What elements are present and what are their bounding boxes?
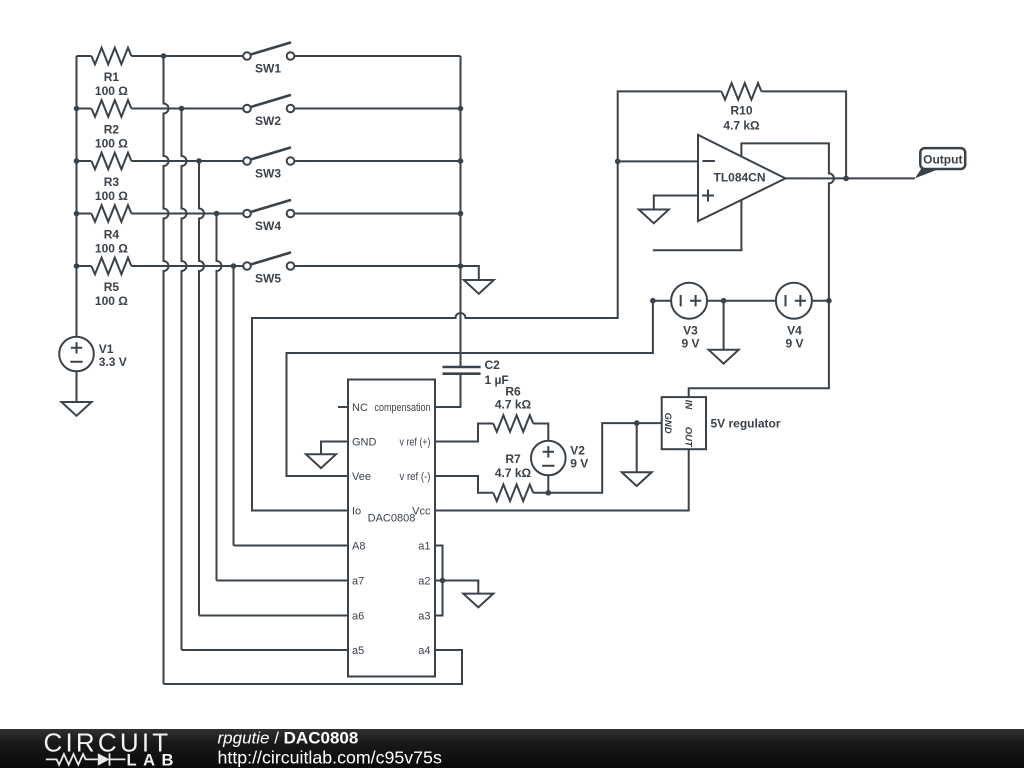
wire op-amp VS- to V3 node (653, 200, 742, 250)
voltage source V1 (59, 337, 127, 372)
svg-text:SW1: SW1 (255, 61, 281, 75)
node VS- V3 (650, 298, 656, 304)
ground below V1 (62, 390, 92, 416)
svg-text:R7: R7 (505, 452, 521, 466)
ground below V3 V4 (709, 338, 739, 364)
footer bar (0, 729, 1024, 768)
wire switch outputs to bus (294, 56, 460, 266)
svg-text:GND: GND (662, 413, 673, 434)
voltage source V3 (671, 283, 707, 351)
wire V3 V4 row (653, 300, 829, 302)
ground below regulator (622, 460, 652, 486)
svg-text:C2: C2 (485, 358, 501, 372)
wire op-amp VS+ to rail (689, 143, 834, 397)
node op-amp minus (615, 159, 621, 165)
node row1 takeoff (161, 53, 167, 59)
svg-text:DAC0808: DAC0808 (368, 513, 416, 525)
wire vertical row3 to a6 (199, 161, 204, 616)
node rail row2 (74, 106, 80, 112)
svg-text:5V regulator: 5V regulator (711, 417, 781, 431)
node V4 plus (826, 298, 832, 304)
wire vertical row5 to A8 (233, 266, 235, 546)
svg-text:v ref (+): v ref (+) (400, 436, 431, 448)
wire Vee pin loop to V3 minus (287, 301, 653, 476)
ground at a2 (463, 582, 493, 608)
svg-text:a2: a2 (418, 575, 430, 587)
resistor R3 (91, 153, 131, 203)
wire Io pin to op-amp minus node (252, 161, 698, 510)
svg-text:100 Ω: 100 Ω (95, 294, 128, 308)
wire V1 to ground (76, 371, 78, 390)
svg-text:a5: a5 (352, 645, 364, 657)
node regulator gnd (634, 420, 640, 426)
wire vertical row2 to a5 (182, 109, 187, 651)
ground below switch bus (464, 268, 494, 294)
svg-text:a7: a7 (352, 575, 364, 587)
wire op-amp plus input to ground (654, 196, 698, 198)
switch SW4 (243, 200, 294, 233)
svg-text:SW5: SW5 (255, 271, 281, 285)
wire v ref (-) to R7 (435, 476, 493, 493)
svg-text:LAB: LAB (127, 752, 180, 768)
svg-text:a4: a4 (418, 645, 430, 657)
svg-text:Io: Io (352, 505, 361, 517)
svg-text:R1: R1 (104, 70, 120, 84)
IC U1 DAC0808 box (348, 380, 435, 677)
svg-text:a3: a3 (418, 610, 430, 622)
svg-text:compensation: compensation (375, 402, 431, 414)
node bus row2 (458, 106, 464, 112)
wire output (785, 177, 915, 179)
voltage source V2 (531, 441, 588, 476)
node R7 V2 (546, 490, 552, 496)
node row5 takeoff (231, 263, 237, 269)
node rail row5 (74, 263, 80, 269)
wire A8 pin (234, 545, 349, 547)
wire vertical row4 to a7 (217, 214, 222, 581)
svg-text:GND: GND (352, 436, 377, 448)
node rail row4 (74, 211, 80, 217)
svg-text:V3: V3 (683, 323, 698, 337)
capacitor C2 (443, 358, 509, 387)
node rail row3 (74, 158, 80, 164)
svg-text:100 Ω: 100 Ω (95, 241, 128, 255)
wire a2 to ground (443, 581, 479, 583)
switch SW5 (243, 252, 294, 285)
svg-text:3.3 V: 3.3 V (99, 355, 127, 369)
svg-text:TL084CN: TL084CN (713, 171, 765, 185)
svg-text:100 Ω: 100 Ω (95, 84, 128, 98)
wire C2 to compensation pin (435, 374, 461, 407)
node bus row4 (458, 211, 464, 217)
node row2 takeoff (179, 106, 185, 112)
svg-text:R3: R3 (104, 175, 120, 189)
switch SW2 (243, 95, 294, 128)
svg-text:A8: A8 (352, 540, 365, 552)
svg-text:9 V: 9 V (570, 456, 588, 470)
resistor R5 (91, 258, 131, 308)
svg-text:9 V: 9 V (681, 336, 699, 350)
resistor R7 (493, 452, 533, 501)
wire bus to C2 (460, 56, 462, 367)
ground at DAC GND pin (306, 442, 336, 468)
svg-text:100 Ω: 100 Ω (95, 189, 128, 203)
resistor R2 (91, 100, 131, 150)
CircuitLab logo (44, 728, 180, 768)
wire regulator GND to ground (636, 423, 638, 460)
switch SW1 (243, 42, 294, 75)
resistor R6 (493, 385, 533, 432)
node V3 V4 mid (721, 298, 727, 304)
regulator U2 box (662, 397, 781, 449)
flag Output (915, 148, 965, 178)
svg-text:v ref (-): v ref (-) (400, 471, 431, 483)
op-amp U3 TL084CN (698, 135, 785, 221)
wire row 2 (77, 108, 244, 110)
wire regulator OUT to Vcc pin (435, 449, 689, 510)
wire vertical row1 to bottom (164, 56, 169, 684)
svg-text:Output: Output (923, 153, 962, 167)
node bus row5 (458, 263, 464, 269)
svg-text:V1: V1 (99, 342, 114, 356)
svg-text:100 Ω: 100 Ω (95, 136, 128, 150)
wire R6 to V2 plus (533, 424, 548, 441)
node row4 takeoff (214, 211, 220, 217)
svg-text:V4: V4 (787, 323, 802, 337)
wire a1 a2 a3 tie (435, 546, 443, 616)
svg-text:R4: R4 (104, 227, 120, 241)
wire row 5 (77, 265, 244, 267)
wire V3 V4 midpoint to ground (723, 301, 725, 338)
wire v ref (+) to R6 (435, 424, 493, 442)
svg-text:a1: a1 (418, 540, 430, 552)
node a2 (440, 578, 446, 584)
wire R10 feedback loop (618, 91, 846, 178)
svg-text:R6: R6 (505, 385, 521, 399)
wire left rail (76, 56, 78, 337)
svg-text:a6: a6 (352, 610, 364, 622)
wire R7 node to regulator GND (533, 423, 662, 493)
svg-text:SW3: SW3 (255, 166, 281, 180)
resistor R10 (721, 83, 761, 133)
svg-text:Vee: Vee (352, 471, 371, 483)
wire row 1 (77, 55, 244, 57)
node bus row3 (458, 158, 464, 164)
wire row 3 (77, 160, 244, 162)
svg-text:9 V: 9 V (785, 336, 803, 350)
svg-text:SW2: SW2 (255, 114, 281, 128)
wire row 4 (77, 213, 244, 215)
resistor R4 (91, 205, 131, 255)
switch SW3 (243, 147, 294, 180)
ground at op-amp plus input (639, 198, 669, 224)
wire a6 pin (199, 615, 348, 617)
svg-text:OUT: OUT (683, 427, 694, 448)
voltage source V4 (776, 283, 812, 351)
svg-text:4.7 kΩ: 4.7 kΩ (723, 119, 760, 133)
wire a5 pin (182, 649, 349, 651)
wire a4 loop to row1 vertical (164, 650, 463, 684)
svg-text:R5: R5 (104, 280, 120, 294)
wire GND pin to ground (321, 442, 348, 443)
svg-text:R10: R10 (730, 104, 752, 118)
svg-text:SW4: SW4 (255, 219, 281, 233)
wire bus ground jog (461, 266, 479, 268)
svg-text:R2: R2 (104, 122, 120, 136)
resistor R1 (91, 48, 131, 98)
wire V2 minus to R7 node (547, 475, 549, 492)
node row3 takeoff (196, 158, 202, 164)
svg-text:NC: NC (352, 402, 368, 414)
svg-text:4.7 kΩ: 4.7 kΩ (495, 398, 532, 412)
svg-text:rpgutie / DAC0808: rpgutie / DAC0808 (218, 729, 359, 748)
node dots (74, 53, 849, 583)
svg-text:4.7 kΩ: 4.7 kΩ (495, 466, 532, 480)
svg-text:http://circuitlab.com/c95v75s: http://circuitlab.com/c95v75s (218, 748, 442, 768)
svg-text:IN: IN (682, 400, 693, 411)
wire a7 pin (217, 580, 349, 582)
pin NC stub (338, 406, 348, 408)
node output (843, 176, 849, 182)
